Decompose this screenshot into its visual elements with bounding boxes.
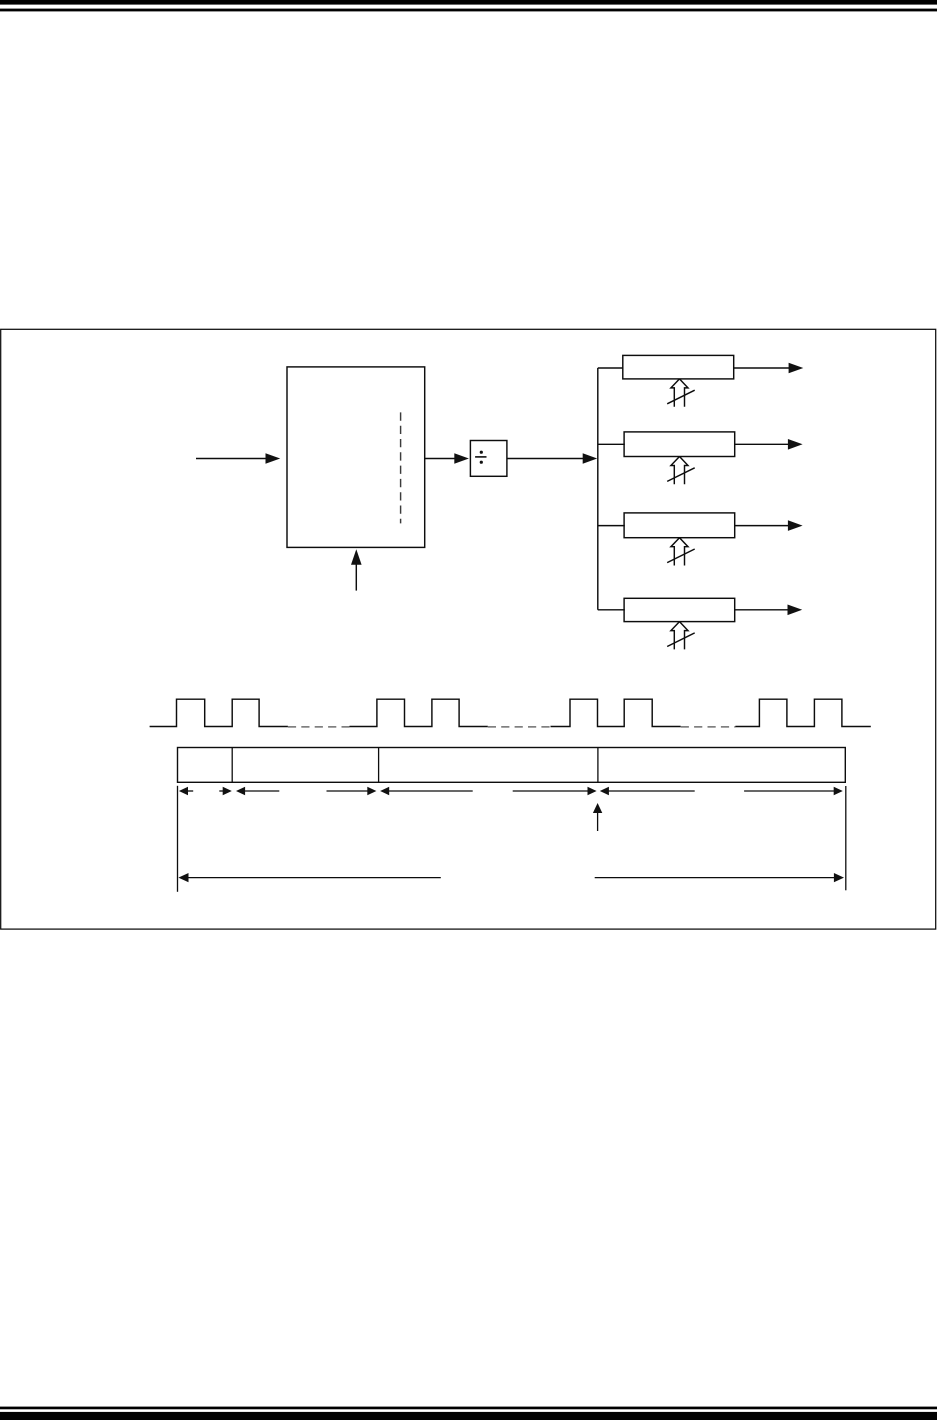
long span arrow right part bbox=[595, 877, 836, 879]
timer internal dashed divider bbox=[400, 412, 402, 523]
register 4 bus-width arrow with slash bbox=[671, 622, 688, 650]
register 4 output arrowhead bbox=[788, 605, 803, 616]
divider box bbox=[470, 441, 507, 477]
period bar bbox=[178, 748, 846, 783]
dim seg4 right arrow bbox=[744, 790, 836, 792]
dim seg4 left arrow bbox=[609, 790, 695, 792]
divide symbol bottom dot bbox=[480, 461, 483, 464]
right extension line bbox=[845, 786, 847, 890]
dim seg3 right arrow bbox=[513, 790, 590, 792]
clock waveform burst 3 bbox=[551, 699, 681, 726]
register 1 output wire bbox=[734, 367, 790, 369]
register 1 bus-width arrow with slash bbox=[671, 379, 688, 407]
register 4 box bbox=[624, 598, 735, 621]
footer thin rule bbox=[0, 1407, 937, 1410]
dim seg1 right arrow bbox=[219, 790, 225, 792]
input arrowhead bbox=[266, 453, 281, 464]
register 2 output wire bbox=[735, 443, 789, 445]
branch wire to register 1 bbox=[598, 367, 624, 369]
footer thick rule bbox=[0, 1412, 937, 1420]
header thick rule bbox=[0, 0, 937, 5]
clock waveform burst 4 bbox=[735, 699, 870, 726]
register 1 output arrowhead bbox=[789, 363, 804, 374]
bar divider 2 bbox=[378, 748, 380, 783]
register 3 output arrowhead bbox=[788, 520, 803, 531]
input wire bbox=[196, 458, 267, 460]
register 1 box bbox=[623, 355, 734, 379]
clock select arrowhead bbox=[351, 549, 362, 564]
clock waveform dashed gap 2 bbox=[488, 726, 551, 728]
header thin rule bbox=[0, 9, 937, 12]
clock waveform burst 1 bbox=[150, 699, 288, 726]
clock select up arrow shaft bbox=[355, 564, 357, 591]
register 4 output wire bbox=[735, 609, 789, 611]
left extension line bbox=[177, 786, 179, 892]
clock waveform dashed gap 3 bbox=[681, 726, 736, 728]
dim seg2 left arrow bbox=[244, 790, 280, 792]
bus vertical line bbox=[597, 368, 599, 610]
figure frame bbox=[1, 329, 936, 929]
register 2 output arrowhead bbox=[788, 439, 803, 450]
divide symbol top dot bbox=[480, 451, 483, 454]
divide symbol bar bbox=[475, 456, 486, 458]
clock waveform burst 2 bbox=[350, 699, 488, 726]
register 2 bus-width arrow with slash bbox=[671, 457, 688, 485]
timer block U1 bbox=[287, 367, 425, 548]
branch wire to register 4 bbox=[598, 609, 625, 611]
wire timer to divider bbox=[425, 458, 455, 460]
branch wire to register 2 bbox=[598, 443, 625, 445]
bar divider 1 bbox=[231, 748, 233, 783]
wire divider to bus bbox=[507, 458, 584, 460]
dim seg3 left arrow bbox=[388, 790, 473, 792]
arrowhead at bus node bbox=[583, 453, 598, 464]
clock waveform dashed gap 1 bbox=[288, 726, 350, 728]
dim seg1 left arrow bbox=[186, 790, 194, 792]
dim seg2 right arrow bbox=[327, 790, 370, 792]
branch wire to register 3 bbox=[598, 525, 625, 527]
register 3 bus-width arrow with slash bbox=[671, 538, 688, 566]
register 2 box bbox=[624, 432, 735, 457]
bar divider 3 bbox=[597, 748, 599, 783]
trigger up arrow bbox=[597, 812, 599, 831]
arrowhead into divider bbox=[454, 453, 469, 464]
register 3 output wire bbox=[735, 525, 789, 527]
register 3 box bbox=[624, 513, 735, 538]
long span arrow left part bbox=[187, 877, 441, 879]
